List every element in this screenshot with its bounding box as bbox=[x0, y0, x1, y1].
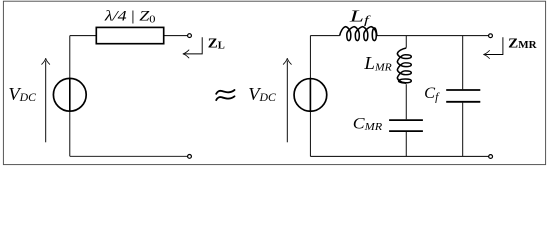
svg-text:λ/4 | Z0: λ/4 | Z0 bbox=[104, 8, 156, 25]
